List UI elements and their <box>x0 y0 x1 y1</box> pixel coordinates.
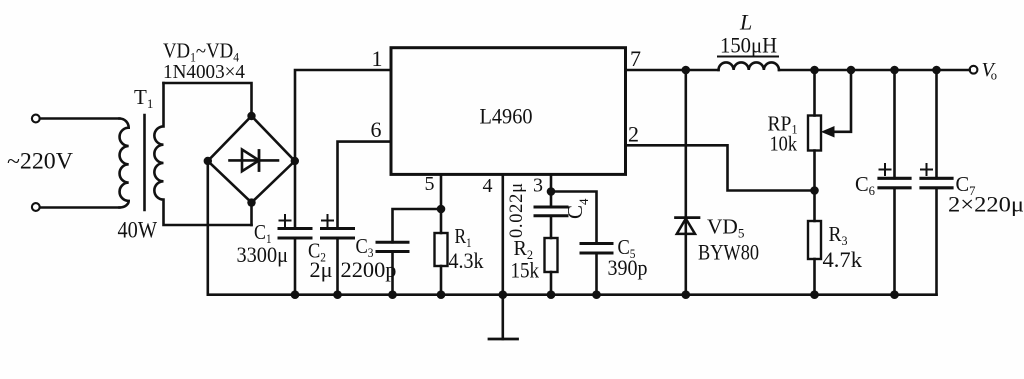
junction R3/ground rail <box>810 290 819 299</box>
wire left vertex down to ground rail <box>207 161 210 295</box>
capacitor C6 <box>879 70 910 295</box>
svg-text:L: L <box>739 10 752 35</box>
ground <box>489 295 518 339</box>
wire inductor to output <box>779 69 970 72</box>
junction dot pin5 node <box>437 205 446 214</box>
svg-text:1: 1 <box>372 46 383 71</box>
resistor R1 <box>435 209 448 295</box>
wire pin3 node to C5 <box>551 192 597 244</box>
wire pin 5 down <box>440 174 443 209</box>
junction dot pin3 node <box>547 187 556 196</box>
svg-text:150μH: 150μH <box>720 33 777 58</box>
junction C6/output rail <box>890 66 899 75</box>
svg-text:2×220μ: 2×220μ <box>948 192 1024 217</box>
svg-text:4.3k: 4.3k <box>449 248 484 273</box>
bridge vertex node left <box>204 157 212 165</box>
junction VD5/output rail <box>682 66 691 75</box>
junction C7/output rail <box>932 66 941 75</box>
junction C1/ground rail <box>291 290 300 299</box>
bridge vertex node top <box>247 112 255 120</box>
svg-text:4: 4 <box>483 175 493 197</box>
junction dot feedback node <box>810 186 819 195</box>
svg-text:L4960: L4960 <box>480 104 533 129</box>
bridge inner diode symbol <box>230 150 279 172</box>
svg-text:5: 5 <box>425 173 435 195</box>
wire bridge bottom vertex to secondary bottom <box>250 203 253 225</box>
svg-text:3: 3 <box>533 175 543 197</box>
capacitor C2 <box>322 215 354 295</box>
resistor R2 <box>545 238 558 295</box>
diode VD5 <box>676 70 700 295</box>
transformer T1 secondary winding <box>154 83 251 225</box>
junction R2/ground rail <box>547 290 556 299</box>
resistor R3 <box>808 221 821 295</box>
capacitor C3 <box>377 242 408 294</box>
svg-text:7: 7 <box>630 46 641 71</box>
label 150uH underline <box>718 56 778 58</box>
ground rail <box>208 293 937 296</box>
svg-text:6: 6 <box>371 117 382 142</box>
wire pin 4 down <box>501 174 504 294</box>
svg-text:4.7k: 4.7k <box>823 247 863 272</box>
RP1 wiper arrow <box>833 70 851 132</box>
junction wiper/output rail <box>847 66 856 75</box>
svg-text:BYW80: BYW80 <box>698 239 759 264</box>
capacitor C7 <box>921 70 952 295</box>
wire pin 3 down <box>550 174 553 191</box>
svg-text:10k: 10k <box>770 132 798 156</box>
IC U1 L4960 <box>391 48 626 175</box>
potentiometer RP1 <box>808 70 851 221</box>
wire primary bottom <box>40 206 120 209</box>
junction RP1/output rail <box>810 66 819 75</box>
svg-text:40W: 40W <box>118 218 158 243</box>
junction C5/ground rail <box>592 290 601 299</box>
transformer T1 primary winding <box>120 119 129 208</box>
wire secondary top to bridge <box>164 83 252 116</box>
wire pin 7 to inductor <box>626 69 719 72</box>
svg-text:2μ: 2μ <box>310 257 333 282</box>
junction C2/ground rail <box>333 290 342 299</box>
wire pin5 node to C3 <box>393 209 442 242</box>
wire pin 6 to C2 <box>338 142 392 229</box>
junction pin4/ground rail <box>499 290 508 299</box>
capacitor C1 <box>279 161 311 295</box>
junction VD5/ground rail <box>682 290 691 299</box>
wire primary top <box>40 117 120 120</box>
svg-text:1N4003×4: 1N4003×4 <box>163 61 245 83</box>
svg-text:3300μ: 3300μ <box>237 242 289 267</box>
bridge rectifier VD1-VD4 diamond <box>208 116 295 203</box>
output terminal Vo <box>970 66 978 74</box>
svg-text:0.022μ: 0.022μ <box>507 183 527 238</box>
svg-text:2: 2 <box>628 122 639 147</box>
wire right vertex up and to pin 1 <box>295 70 391 161</box>
capacitor C5 <box>581 244 612 295</box>
AC input terminal bottom <box>32 203 40 211</box>
svg-text:390p: 390p <box>608 255 648 280</box>
bridge vertex node right <box>291 157 299 165</box>
junction R1/ground rail <box>437 290 446 299</box>
wire pin 2 to feedback node <box>626 145 815 190</box>
junction C6/ground rail <box>890 290 899 299</box>
svg-text:15k: 15k <box>511 258 540 283</box>
inductor L <box>719 62 779 70</box>
junction C3/ground rail <box>388 290 397 299</box>
capacitor C4 <box>535 192 567 239</box>
svg-text:2200p: 2200p <box>341 257 397 282</box>
AC input terminal top <box>32 115 40 123</box>
svg-text:~220V: ~220V <box>7 149 73 174</box>
transformer T1 core <box>143 115 146 210</box>
bridge vertex node bottom <box>247 198 255 206</box>
